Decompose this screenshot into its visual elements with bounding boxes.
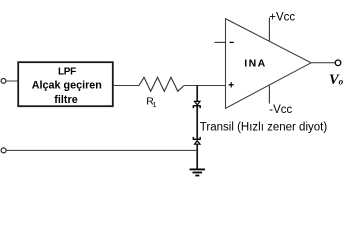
svg-text:INA: INA <box>244 57 266 69</box>
svg-text:Alçak geçiren: Alçak geçiren <box>32 79 102 91</box>
svg-text:Transil (Hızlı zener diyot): Transil (Hızlı zener diyot) <box>200 122 328 134</box>
svg-text:+Vcc: +Vcc <box>269 12 295 24</box>
svg-text:-Vcc: -Vcc <box>269 104 292 116</box>
svg-text:filtre: filtre <box>54 94 77 106</box>
svg-text:LPF: LPF <box>58 67 76 78</box>
svg-text:1: 1 <box>153 102 157 109</box>
